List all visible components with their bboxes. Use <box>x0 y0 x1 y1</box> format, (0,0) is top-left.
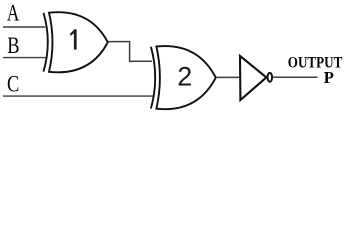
wire gate1 output to gate2 (step) <box>108 42 152 62</box>
XOR gate 1 body <box>49 12 108 72</box>
XOR gate 2 body <box>156 46 215 109</box>
wire B <box>3 57 47 59</box>
wire gate2 output to inverter <box>216 76 239 78</box>
svg-text:A: A <box>7 1 20 27</box>
wire C <box>3 95 154 97</box>
svg-text:P: P <box>324 68 334 87</box>
XOR gate 1 input arc <box>44 13 48 72</box>
output wire <box>273 76 317 78</box>
svg-text:2: 2 <box>177 62 192 92</box>
inverter U1 triangle <box>240 56 266 100</box>
inverter U1 output bubble <box>268 73 273 82</box>
XOR gate 2 input arc <box>151 47 155 109</box>
wire A <box>3 26 45 28</box>
gate 1 label "1" <box>70 29 77 49</box>
svg-text:OUTPUT: OUTPUT <box>288 54 343 72</box>
svg-text:C: C <box>7 71 19 97</box>
svg-text:B: B <box>7 33 19 59</box>
